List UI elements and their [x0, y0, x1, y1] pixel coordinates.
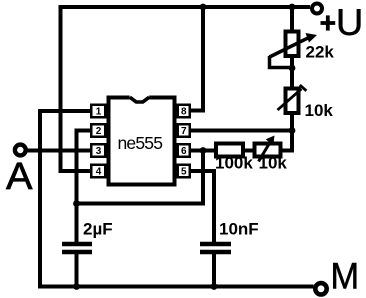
- variable resistor R4 10k body: [255, 144, 281, 157]
- svg-text:22k: 22k: [306, 42, 335, 61]
- junction dot ground at 10nF: [211, 283, 218, 290]
- junction dot pin7 node: [289, 127, 296, 134]
- wire: pin 6 to 100k left terminal: [191, 149, 216, 153]
- wire: pin 5 right and down to 10nF: [191, 171, 215, 243]
- capacitor C1 2uF plates: [62, 244, 92, 252]
- IC U1 ne555 body: [109, 98, 175, 185]
- pin 8 box: [178, 105, 190, 118]
- svg-text:U: U: [336, 2, 364, 43]
- terminal +U circle: [312, 4, 322, 14]
- junction dot timing cap node: [73, 200, 80, 207]
- wire: 22k bottom to 10k trimmer top: [290, 58, 294, 88]
- junction dot 22k wiper: [289, 65, 296, 72]
- pin 6 box: [178, 144, 190, 157]
- svg-text:10k: 10k: [259, 154, 288, 173]
- junction dot top rail at pin8 drop: [200, 4, 207, 11]
- svg-text:4: 4: [96, 167, 102, 178]
- junction dot ground at 2uF: [73, 283, 80, 290]
- svg-text:10k: 10k: [305, 101, 334, 120]
- svg-text:6: 6: [181, 146, 187, 157]
- label +U: [321, 21, 336, 25]
- svg-text:A: A: [6, 156, 33, 198]
- wire: 10nF bottom plate to ground rail: [212, 253, 216, 287]
- svg-text:3: 3: [96, 146, 102, 157]
- junction dot pin6 node: [200, 147, 207, 154]
- terminal A circle: [15, 145, 26, 156]
- svg-text:ne555: ne555: [118, 133, 163, 153]
- wire: pin 8 to top rail: [191, 5, 204, 111]
- resistor R3 100k body: [216, 144, 243, 157]
- potentiometer P1 wiper return bracket: [270, 56, 292, 68]
- trimmer R2 adjust stroke: [278, 89, 302, 110]
- svg-text:7: 7: [181, 126, 187, 137]
- pin 2 box: [91, 124, 105, 137]
- wire: pin 2 left and down to timing cap node: [77, 131, 92, 205]
- svg-text:1: 1: [96, 107, 102, 118]
- svg-text:10nF: 10nF: [219, 220, 259, 239]
- variable resistor R4 arrow: [259, 142, 271, 162]
- pin 3 box: [91, 144, 105, 157]
- wire: +V top rail with left drop to pin 4: [61, 7, 311, 171]
- svg-text:8: 8: [181, 107, 187, 118]
- terminal M circle: [315, 283, 326, 294]
- wire: pin 7 to right rail junction: [191, 129, 293, 133]
- svg-text:2: 2: [96, 126, 102, 137]
- potentiometer P1 22k body: [286, 32, 299, 57]
- wire: 2uF bottom plate to ground rail: [75, 253, 79, 287]
- svg-text:2µF: 2µF: [83, 220, 113, 239]
- trimmer R2 crossbar: [300, 85, 307, 91]
- svg-text:100k: 100k: [215, 154, 253, 173]
- wire: cap node down to 2uF top plate: [75, 204, 79, 244]
- wire: pin 1 left and down to ground rail, bottom ground rail to M: [40, 111, 314, 287]
- pin 1 box: [91, 105, 105, 118]
- trimmer R2 10k body: [286, 89, 299, 114]
- pin 5 box: [178, 165, 190, 178]
- wire: 10k trimmer bottom down, left to 10k var right terminal: [282, 114, 293, 151]
- wire: +U junction down to 22k top: [290, 7, 294, 30]
- svg-text:5: 5: [181, 167, 187, 178]
- junction dot top rail at +U: [289, 4, 296, 11]
- pin 7 box: [178, 124, 190, 137]
- potentiometer P1 wiper arrow: [270, 38, 309, 57]
- IC U1 notch: [130, 95, 150, 100]
- pin 4 box: [91, 165, 105, 178]
- wire: pin 6 node down and left to timing cap node: [75, 151, 203, 204]
- wire: 100k-10k series link: [244, 149, 254, 153]
- wire: terminal A to pin 3: [28, 149, 92, 153]
- svg-text:M: M: [330, 255, 359, 297]
- capacitor C2 10nF plates: [200, 244, 231, 252]
